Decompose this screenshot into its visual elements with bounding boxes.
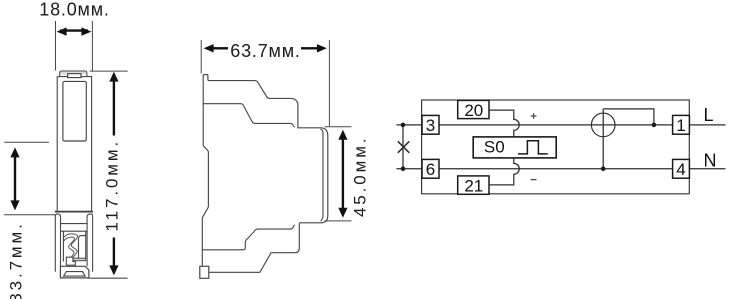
extension line right of 63.7 dim xyxy=(328,40,330,126)
top face line xyxy=(57,76,92,78)
terminal 3 xyxy=(422,115,439,134)
terminal 20 xyxy=(458,100,489,119)
DIN clip foot wedge xyxy=(64,272,86,277)
DIN clip section: left flange xyxy=(55,214,60,272)
svg-text:L: L xyxy=(704,105,714,125)
dimension arrows 63.7 (outward heads) xyxy=(204,44,327,52)
svg-text:N: N xyxy=(704,151,717,171)
side profile outline xyxy=(202,75,327,273)
meter main body outline xyxy=(55,77,93,212)
DIN clip inner frame xyxy=(63,231,85,261)
node dot on N xyxy=(601,167,606,172)
pulse waveform symbol xyxy=(518,141,548,154)
top extension line of 117 dim xyxy=(90,70,128,72)
minus polarity label xyxy=(531,179,537,181)
DIN clip crossbar xyxy=(61,224,88,232)
DIN clip spring xyxy=(63,234,85,261)
wire L internal 3 to 1 xyxy=(439,124,673,126)
dimension label 45.0mm (rotated) xyxy=(351,136,370,218)
extension line bottom of 45 dim xyxy=(325,220,352,222)
terminal 6 xyxy=(422,159,439,179)
wire from circle bottom to N xyxy=(602,109,604,169)
dimension arrow 117 upper segment xyxy=(109,72,118,136)
svg-text:3: 3 xyxy=(426,116,435,135)
label L xyxy=(704,105,714,125)
wire from terminal 20 to S0 with hop over L xyxy=(489,110,519,137)
jumper wire between L and N inputs xyxy=(402,125,404,169)
window on top lip xyxy=(68,74,81,78)
extension line right of 18.0 dim xyxy=(91,21,93,71)
DIN clip section: right flange xyxy=(87,214,93,272)
svg-text:117.0мм.: 117.0мм. xyxy=(103,139,122,232)
wire L output xyxy=(689,124,725,126)
S0 label xyxy=(484,137,505,156)
dimension arrow 117 lower segment xyxy=(109,238,118,276)
DIN clip foot xyxy=(60,266,89,278)
voltage tap wire from circle top to L xyxy=(603,109,654,125)
dimension label 33.7mm (rotated) xyxy=(7,221,26,299)
node dot top of jumper xyxy=(401,123,406,128)
extension line top of 33.7 dim xyxy=(4,141,49,143)
svg-text:18.0мм.: 18.0мм. xyxy=(39,0,109,20)
wire N input xyxy=(396,168,422,170)
DIN rail clip square xyxy=(200,266,209,278)
bottom extension line of 117 dim xyxy=(89,277,128,279)
extension line left of 18.0 dim xyxy=(55,21,57,71)
svg-text:1: 1 xyxy=(676,116,685,135)
wire from terminal 21 to S0 with hop over N xyxy=(489,158,519,185)
terminal 1 xyxy=(673,115,690,134)
meter enclosure rectangle xyxy=(422,100,690,194)
svg-text:63.7мм.: 63.7мм. xyxy=(230,41,300,61)
side inner seam lower xyxy=(202,225,294,250)
terminal 4 xyxy=(673,159,690,178)
dimension arrow 45 (vertical double head) xyxy=(338,130,347,218)
node dot voltage tap on L xyxy=(652,123,657,128)
svg-text:33.7мм.: 33.7мм. xyxy=(7,221,26,299)
wire N output xyxy=(689,168,725,170)
dimension label 18.0mm xyxy=(39,0,109,20)
label N xyxy=(704,151,717,171)
terminal 21 xyxy=(458,176,489,195)
dimension label 63.7mm xyxy=(230,41,300,61)
svg-text:45.0мм.: 45.0мм. xyxy=(351,136,370,218)
dimension arrow 33.7 (vertical double head) xyxy=(10,147,19,210)
front panel inset xyxy=(63,81,86,141)
DIN clip spring block xyxy=(66,257,75,265)
X mark on jumper xyxy=(398,141,410,153)
extension line top of 45 dim xyxy=(325,126,352,128)
plus polarity label xyxy=(531,113,537,119)
wire N internal 6 to 4 xyxy=(439,168,673,170)
dimension label 117.0mm (rotated) xyxy=(103,139,122,232)
extension line bottom of 33.7 dim xyxy=(4,214,56,216)
meter body top lip xyxy=(60,71,87,77)
S0 pulse output box xyxy=(473,137,556,158)
dimension arrow 18.0 (double head) xyxy=(57,27,92,35)
svg-text:20: 20 xyxy=(464,101,483,120)
svg-text:S0: S0 xyxy=(484,137,505,156)
svg-text:6: 6 xyxy=(426,160,435,179)
svg-text:21: 21 xyxy=(464,176,483,195)
front face inner edge line xyxy=(321,129,323,221)
wire L input xyxy=(396,124,422,126)
measuring element circle xyxy=(591,113,615,137)
node dot bottom of jumper xyxy=(401,167,406,172)
extension line left of 63.7 dim xyxy=(200,40,202,74)
side inner seam upper xyxy=(203,104,294,128)
svg-text:4: 4 xyxy=(676,160,685,179)
